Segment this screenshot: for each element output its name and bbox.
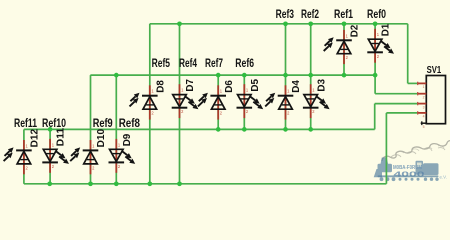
wire lower bus (Ref8-Ref11)	[24, 128, 375, 130]
wire top bus (Ref0-Ref3)	[150, 23, 408, 25]
wire riser bottom bus to SV1 pin4	[385, 113, 387, 184]
svg-text:Ref7: Ref7	[205, 56, 223, 70]
svg-text:Ref3: Ref3	[276, 7, 295, 21]
svg-text:Ref6: Ref6	[235, 56, 254, 70]
junction at x=375 on middle bus	[373, 73, 378, 78]
svg-text:D9: D9	[122, 133, 133, 146]
wire to SV1 pin3	[375, 103, 418, 105]
wire D12 column	[23, 129, 25, 183]
LED D3	[303, 79, 330, 118]
svg-text:3: 3	[423, 105, 425, 109]
junction at x=286 on lower bus	[283, 127, 288, 132]
wire D5 column	[243, 75, 245, 129]
wire D2 column	[343, 24, 345, 75]
junction at x=50 on lower bus	[48, 127, 53, 132]
SV1 pin 4	[418, 112, 427, 114]
wire riser lower bus to SV1 pin3	[374, 104, 376, 130]
SV1 pin 1	[418, 82, 427, 84]
junction at x=375 on top bus	[373, 21, 378, 26]
SV1 pin 3	[418, 103, 427, 105]
svg-text:D7: D7	[185, 79, 196, 92]
junction at x=218 on lower bus	[216, 127, 221, 132]
svg-text:1: 1	[423, 85, 425, 89]
svg-text:Ref0: Ref0	[367, 7, 386, 21]
svg-text:D12: D12	[30, 129, 41, 148]
svg-text:D2: D2	[350, 24, 361, 37]
wire D7 column	[179, 24, 181, 184]
svg-text:2: 2	[423, 95, 425, 99]
wire D6 column	[217, 75, 219, 129]
junction at x=311 on top bus	[308, 21, 313, 26]
junction at x=180 on top bus	[177, 21, 182, 26]
svg-text:Ref5: Ref5	[152, 56, 171, 70]
wire to SV1 pin2	[375, 93, 418, 95]
wire bottom common bus	[24, 183, 387, 185]
junction at x=311 on lower bus	[308, 127, 313, 132]
junction at x=244 on lower bus	[242, 127, 247, 132]
svg-text:D11: D11	[56, 128, 67, 147]
wire D4 column	[285, 24, 287, 130]
junction at x=150 on bottom bus	[147, 181, 152, 186]
junction at x=344 on top bus	[342, 21, 347, 26]
svg-text:Ref11: Ref11	[14, 116, 37, 130]
LED D5	[237, 79, 264, 118]
wire D10 column	[90, 75, 92, 184]
photodiode D12	[4, 129, 41, 175]
junction at x=218 on middle bus	[216, 73, 221, 78]
junction at x=286 on middle bus	[283, 73, 288, 78]
svg-text:4: 4	[423, 115, 425, 119]
junction at x=50 on bottom bus	[47, 181, 52, 186]
SV1 pin 2	[418, 93, 427, 95]
wire D11 column	[49, 129, 51, 183]
SV1 pin 5	[421, 122, 427, 124]
svg-text:Ref8: Ref8	[119, 116, 141, 130]
wire to SV1 pin1	[408, 82, 418, 84]
junction at x=311 on middle bus	[308, 73, 313, 78]
svg-text:Ref9: Ref9	[93, 116, 113, 130]
svg-text:5: 5	[423, 125, 425, 129]
photodiode D2	[324, 24, 361, 64]
svg-text:D10: D10	[96, 129, 107, 148]
photodiode D6	[198, 80, 235, 120]
svg-text:SV1: SV1	[427, 65, 442, 76]
connector SV1	[418, 65, 446, 129]
LED D1	[367, 23, 394, 62]
svg-text:D4: D4	[291, 80, 302, 93]
wire middle bus (Ref4-Ref7)	[90, 74, 375, 76]
junction at x=244 on middle bus	[242, 73, 247, 78]
svg-text:D3: D3	[316, 79, 327, 92]
junction at x=90 on bottom bus	[88, 181, 93, 186]
junction at x=286 on top bus	[283, 21, 288, 26]
watermark: model railway forum logo (steam locomotive with smoke)	[374, 140, 450, 181]
wire D3 column	[310, 24, 312, 130]
LED D7	[172, 79, 199, 118]
svg-text:Ref10: Ref10	[42, 116, 66, 130]
junction at x=116 on middle bus	[114, 73, 119, 78]
svg-text:D6: D6	[224, 80, 235, 93]
LED D9	[109, 133, 136, 172]
wire D8 column	[149, 24, 151, 184]
LED D11	[42, 128, 69, 173]
svg-text:Ref1: Ref1	[334, 7, 353, 21]
svg-text:D1: D1	[381, 23, 392, 36]
svg-text:D8: D8	[155, 80, 166, 93]
svg-text:Ref2: Ref2	[301, 7, 319, 21]
wire D1 column	[374, 24, 376, 94]
svg-text:Ref4: Ref4	[179, 56, 197, 70]
wire right drop to SV1 pin1	[407, 24, 409, 84]
photodiode D4	[265, 80, 302, 120]
wire D9 column	[115, 75, 117, 184]
wire to SV1 pin4	[386, 112, 418, 114]
junction at x=116 on bottom bus	[114, 181, 119, 186]
photodiode D8	[130, 80, 167, 120]
junction at x=180 on bottom bus	[177, 181, 182, 186]
svg-text:e.V.: e.V.	[440, 175, 447, 180]
svg-text:D5: D5	[250, 79, 261, 92]
junction at x=344 on middle bus	[342, 73, 347, 78]
photodiode D10	[70, 129, 107, 175]
